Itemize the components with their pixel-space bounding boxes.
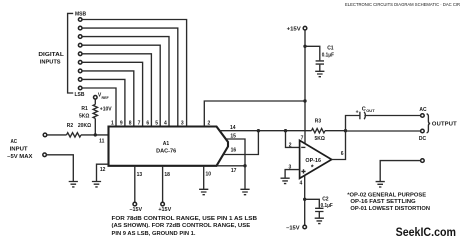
non-inverting input marker: [301, 169, 305, 173]
svg-text:DIGITAL: DIGITAL: [38, 52, 63, 58]
svg-text:LSB: LSB: [75, 92, 85, 98]
wire: +15V rail to C1: [305, 46, 320, 60]
AC input terminal upper: [43, 133, 47, 137]
resistor R1: [93, 104, 97, 118]
svg-text:OUTPUT: OUTPUT: [432, 122, 457, 128]
wire: digital input bit 7 to DAC pin: [82, 71, 134, 127]
wire: digital input bit 2 to DAC pin: [82, 28, 178, 126]
terminal DC output: [421, 129, 425, 133]
terminal +15V (pin 18): [161, 202, 165, 206]
digital input bit 4 terminal: [78, 43, 82, 47]
svg-text:+: +: [356, 109, 359, 115]
ground (C2): [315, 218, 324, 223]
svg-text:FOR 78dB CONTROL RANGE, USE PI: FOR 78dB CONTROL RANGE, USE PIN 1 AS LSB: [112, 216, 258, 222]
wire: digital input bit 1 to DAC pin: [82, 20, 186, 127]
wire: VREF to R1: [94, 99, 96, 104]
svg-text:(AS SHOWN). FOR 72dB CONTROL R: (AS SHOWN). FOR 72dB CONTROL RANGE, USE: [112, 223, 251, 229]
resistor R2: [67, 133, 82, 137]
svg-text:16: 16: [231, 147, 237, 153]
wire: C1 to ground: [319, 65, 321, 72]
junction: +15V rail / DAC pin 2: [303, 99, 306, 102]
digital input bit 5 terminal: [78, 52, 82, 56]
svg-text:OP-16: OP-16: [305, 158, 321, 164]
capacitor C1: [316, 61, 324, 64]
svg-text:A1: A1: [163, 141, 170, 147]
wire: digital input bit 4 to DAC pin: [82, 45, 160, 126]
node VREF terminal: [94, 96, 98, 100]
svg-text:–15V: –15V: [286, 226, 300, 232]
wire: pin 4 node to C2: [305, 199, 320, 208]
svg-text:2: 2: [208, 121, 211, 127]
svg-text:0.1μF: 0.1μF: [321, 203, 333, 209]
svg-text:6: 6: [146, 121, 149, 127]
digital input bit 3 terminal: [78, 35, 82, 39]
svg-text:OP-16 FAST SETTLING: OP-16 FAST SETTLING: [350, 199, 416, 205]
svg-text:8: 8: [129, 121, 132, 127]
digital input bit 7 terminal: [78, 69, 82, 73]
capacitor COUT: [360, 112, 366, 119]
svg-text:–5V MAX: –5V MAX: [7, 154, 33, 160]
wire: op-amp pin 4 to -15V: [304, 176, 306, 226]
svg-text:5KΩ: 5KΩ: [79, 114, 89, 120]
terminal -15V (op-amp): [303, 225, 307, 229]
bracket: digital inputs group: [68, 13, 74, 93]
svg-text:20KΩ: 20KΩ: [78, 123, 91, 129]
svg-text:+10V: +10V: [100, 106, 112, 112]
svg-text:AC: AC: [11, 139, 18, 145]
svg-text:6: 6: [341, 151, 344, 157]
svg-text:OUT: OUT: [366, 108, 375, 113]
wire: DAC pin 18 to +15V terminal: [162, 166, 164, 202]
wire: DAC pin 16: [223, 131, 258, 155]
capacitor C2: [315, 208, 323, 211]
digital input bit 8 terminal: [78, 78, 82, 82]
svg-text:18: 18: [164, 172, 170, 178]
svg-text:R3: R3: [315, 119, 322, 125]
wire: pin 17 node to ground: [244, 166, 246, 190]
svg-text:*: *: [311, 164, 314, 171]
wire: DAC pin 10 to ground: [203, 166, 205, 190]
brace for OUTPUT: [427, 114, 431, 133]
svg-text:1: 1: [111, 121, 114, 127]
svg-text:4: 4: [300, 181, 303, 187]
wire: common terminal to ground: [380, 161, 420, 182]
wire: DAC pin 15: [226, 139, 245, 166]
svg-text:5: 5: [155, 121, 158, 127]
wire: output node up to COUT: [346, 116, 360, 131]
svg-text:R2: R2: [67, 123, 74, 129]
op-amp style DAC body A1 DAC-76: [109, 127, 229, 166]
svg-text:4: 4: [164, 121, 167, 127]
svg-text:*OP-02 GENERAL PURPOSE: *OP-02 GENERAL PURPOSE: [347, 192, 426, 198]
wire: digital input bit 5 to DAC pin: [82, 54, 151, 127]
junction: +15V rail / C1: [303, 45, 306, 48]
svg-text:9: 9: [120, 121, 123, 127]
wire: R3 to output node: [325, 130, 346, 132]
svg-text:14: 14: [230, 125, 236, 131]
digital input bit 2 terminal: [78, 26, 82, 30]
svg-text:+15V: +15V: [287, 27, 302, 33]
svg-text:7: 7: [138, 121, 141, 127]
svg-text:AC: AC: [419, 107, 427, 113]
svg-text:10: 10: [206, 171, 212, 177]
svg-text:11: 11: [99, 139, 105, 145]
svg-text:INPUT: INPUT: [10, 147, 28, 153]
svg-text:DAC-76: DAC-76: [156, 148, 176, 154]
wire: DAC pin 2 to +15V rail: [204, 101, 305, 127]
wire: digital input bit 8 to DAC pin: [82, 79, 125, 126]
svg-text:17: 17: [231, 168, 237, 174]
junction: pins 14/16: [257, 129, 260, 132]
wire: COUT to AC terminal: [364, 115, 420, 117]
ground (output common): [376, 182, 385, 187]
svg-text:13: 13: [137, 172, 143, 178]
ground (op-amp pin 3): [281, 178, 290, 183]
svg-text:R1: R1: [81, 106, 88, 112]
wire: +15V vertical rail to op-amp pin 7: [304, 30, 306, 143]
ground (pin 10): [199, 189, 208, 194]
svg-text:C1: C1: [327, 46, 334, 52]
wire: AC input to R2: [47, 134, 67, 136]
svg-text:REF: REF: [102, 96, 110, 100]
wire: digital input bit 9 to DAC pin: [82, 88, 116, 127]
wire: DAC pin 13 to -15V terminal: [134, 166, 136, 202]
svg-text:2: 2: [289, 142, 292, 148]
ground (C1): [315, 71, 324, 76]
svg-text:MSB: MSB: [75, 11, 87, 17]
digital input bit 9 terminal: [78, 86, 82, 90]
svg-text:DC: DC: [419, 136, 427, 142]
wire: lower AC terminal to ground: [47, 155, 74, 182]
svg-text:12: 12: [100, 167, 106, 173]
junction: output node: [344, 129, 347, 132]
junction: summing node to op-amp inverting input: [284, 129, 287, 132]
inverting input marker: [301, 146, 305, 148]
svg-text:3: 3: [289, 165, 292, 171]
op-amp U1 OP-16 triangle: [300, 140, 332, 178]
ground (pin 12): [92, 182, 101, 187]
ground (AC input return): [69, 182, 78, 187]
terminal +15V (top): [303, 26, 307, 30]
svg-text:7: 7: [301, 135, 304, 141]
wire: output node to DC terminal: [346, 130, 421, 132]
ground (pin 17 node): [240, 189, 249, 194]
svg-text:0.1μF: 0.1μF: [322, 53, 334, 59]
AC input terminal lower: [43, 153, 47, 157]
terminal AC output: [421, 114, 425, 118]
svg-text:C: C: [362, 107, 366, 113]
wire: digital input bit 6 to DAC pin: [82, 62, 142, 126]
digital input bit 6 terminal: [78, 61, 82, 65]
svg-text:3: 3: [181, 121, 184, 127]
wire: R1 to node A: [94, 118, 96, 134]
terminal -15V (pin 13): [133, 202, 137, 206]
wire: DAC pin 14 output line: [220, 130, 312, 132]
wire: op-amp pin 3 to ground: [285, 170, 300, 179]
svg-text:SeekIC.com: SeekIC.com: [396, 225, 456, 239]
digital input bit 1 terminal: [78, 18, 82, 22]
wire: summing node down to op-amp pin 2: [286, 131, 300, 148]
wire: DAC pin 17: [217, 165, 245, 167]
svg-text:OP-01 LOWEST DISTORTION: OP-01 LOWEST DISTORTION: [350, 206, 430, 212]
wire: C2 to ground: [318, 212, 320, 218]
wire: op-amp output pin 6: [332, 131, 346, 160]
junction: pin 4 / C2: [303, 198, 306, 201]
resistor R3: [312, 129, 326, 133]
junction: pins 15/17 to ground: [243, 164, 246, 167]
node A junction (R1/R2/pin11): [94, 133, 97, 136]
wire: digital input bit 3 to DAC pin: [82, 37, 169, 127]
svg-text:C2: C2: [322, 197, 329, 203]
output common terminal: [421, 159, 425, 163]
svg-text:15: 15: [230, 133, 236, 139]
svg-text:INPUTS: INPUTS: [40, 59, 62, 65]
svg-text:ELECTRONIC CIRCUITS DIAGRAM SC: ELECTRONIC CIRCUITS DIAGRAM SCHEMATIC · …: [345, 2, 460, 7]
svg-text:PIN 9 AS LSB, GROUND PIN 1.: PIN 9 AS LSB, GROUND PIN 1.: [112, 231, 196, 237]
wire: DAC pin 12 to ground: [97, 164, 109, 181]
wire: R2 to DAC pin 11: [81, 134, 109, 136]
svg-text:+15V: +15V: [158, 207, 172, 213]
svg-text:–15V: –15V: [130, 207, 143, 213]
svg-text:5KΩ: 5KΩ: [314, 136, 324, 142]
